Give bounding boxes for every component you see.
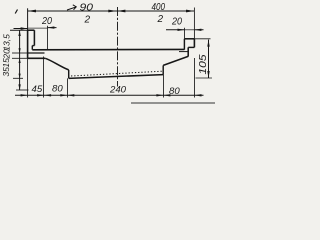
wire extension at x=184.5 [184,28,186,39]
right lower face [187,47,189,56]
centerline [117,7,119,87]
right tab outer face [193,39,195,48]
stray line bottom right [131,102,215,104]
right inner wall up [162,65,164,74]
svg-text:45: 45 [32,84,43,95]
wire extension at x=47.4 [47,26,49,49]
rabbet step [32,45,34,47]
svg-text:35: 35 [1,67,11,77]
wire bottom extension x27.6 [27,58,29,97]
wire 105 bottom extension [196,77,213,79]
left slope of bottom recess [45,58,68,70]
wire bottom extension x163.4 [163,75,165,98]
web top edge [32,48,184,50]
wire extension line left end top [27,8,29,30]
inner face of left tab [33,30,35,45]
wire bottom extension x44 [43,57,45,98]
right tab left face [183,39,185,50]
label 90/2 [67,1,93,25]
rabbet face [31,46,33,50]
svg-text:20: 20 [41,16,52,27]
node arrow left of 90/2 [28,10,36,13]
wire right 20 dim [166,29,204,31]
svg-text:13,5: 13,5 [2,34,12,51]
right step [188,46,194,48]
web bottom edge left [28,52,45,54]
wire bottom extension x194.5 [194,58,196,98]
svg-text:105: 105 [198,54,209,75]
paper background [0,0,220,110]
top edge of left tab [27,29,34,31]
wire top dimension line [28,10,195,12]
node arrow right of 400/2 [186,10,194,13]
left face of part [27,30,29,58]
wire extension y90 stub [16,89,29,91]
left stub down [68,70,70,79]
svg-text:20: 20 [1,49,11,60]
wire bottom chain dim line [15,94,204,96]
svg-text:20: 20 [171,16,182,27]
web bottom edge right stub [179,51,188,53]
svg-text:80: 80 [169,86,180,97]
svg-text:2: 2 [157,14,164,25]
wire left chain dim line [19,30,21,90]
wire extension web bottom to left [12,52,28,54]
wire 105 dim line [208,40,210,78]
wire bottom extension x67.3 [67,78,69,97]
wire extension line right end top [193,8,195,39]
wire extension flange bottom to left [12,57,28,59]
right tab top edge [184,38,194,40]
flange bottom left [28,57,46,59]
right slope of bottom recess [163,56,188,65]
svg-text:2: 2 [84,15,91,26]
svg-text:400: 400 [152,2,166,13]
node arrow pair at centerline [108,10,116,13]
svg-text:240: 240 [109,85,127,96]
speckle top left [15,10,17,14]
wire extension y78 stub [13,77,23,79]
svg-text:15: 15 [1,58,11,68]
wire extension of top edge to the left [10,29,27,31]
svg-text:90: 90 [80,1,94,13]
wire left 20 dim [14,27,57,30]
svg-text:80: 80 [52,84,63,95]
bottom edge of pedestal [69,75,164,79]
hidden dotted inner bottom [71,71,162,76]
wire extension tab top to right [194,38,210,40]
